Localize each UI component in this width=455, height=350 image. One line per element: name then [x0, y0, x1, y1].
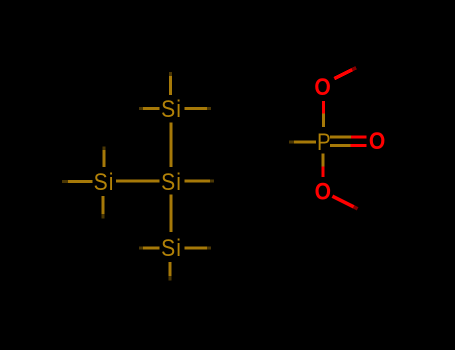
svg-text:P: P — [317, 129, 331, 156]
svg-text:O: O — [369, 128, 385, 155]
svg-text:Si: Si — [161, 235, 182, 262]
wire: C-P half bond left of P — [289, 141, 316, 144]
svg-text:Si: Si — [94, 169, 115, 196]
wire: methyl bond left of Si3 — [62, 180, 93, 183]
wire: O1-CH3 bond red half — [334, 68, 356, 79]
wire: P-O lower bond red half — [322, 167, 325, 177]
wire: methyl bond below Si3 — [102, 196, 105, 219]
wire: Si1-Si2 vertical bond — [170, 123, 173, 168]
wire: P=O double bond red halves — [351, 137, 367, 146]
wire: P-O upper bond red half — [322, 101, 325, 113]
wire: P-O lower bond gold half — [322, 154, 325, 167]
wire: P-O upper bond gold half — [322, 113, 325, 127]
wire: Si2-C half bond to the right — [185, 180, 215, 183]
wire: methyl bond left of Si4 — [139, 246, 160, 249]
wire: Si2-Si4 vertical bond — [170, 195, 173, 233]
wire: methyl bond left of Si1 — [139, 107, 160, 110]
wire: O3-CH3 bond red half — [332, 196, 357, 209]
svg-text:Si: Si — [161, 169, 182, 196]
svg-text:Si: Si — [161, 96, 182, 123]
wire: methyl bond above Si1 — [169, 72, 172, 95]
wire: methyl bond right of Si4 — [185, 246, 212, 249]
wire: methyl bond above Si3 — [103, 147, 106, 168]
svg-text:O: O — [315, 178, 331, 205]
wire: P=O double bond gold halves — [330, 137, 351, 146]
svg-text:O: O — [314, 74, 330, 101]
wire: methyl bond right of Si1 — [185, 107, 212, 110]
wire: methyl bond below Si4 — [169, 262, 172, 281]
wire: Si3-Si2 horizontal bond — [116, 180, 160, 183]
